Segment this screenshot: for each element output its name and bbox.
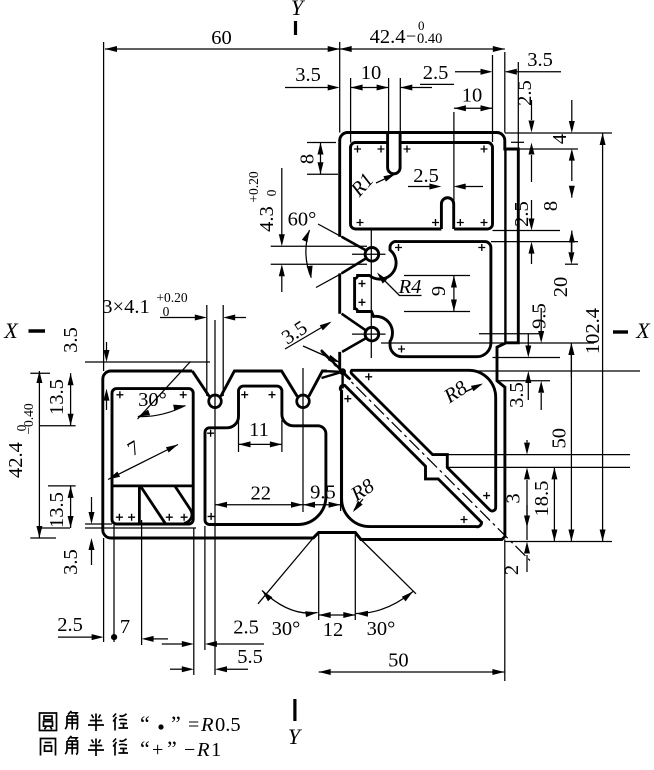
pocket 1 (bottom-left) rounded rect <box>112 389 193 524</box>
svg-text:60°: 60° <box>288 209 317 231</box>
label R4 <box>377 273 422 299</box>
label R8 upper <box>439 377 483 409</box>
svg-text:3: 3 <box>502 493 524 503</box>
svg-text:30°: 30° <box>272 618 301 640</box>
legend text (fillet radius notes) <box>40 711 241 761</box>
dim 13.5 lower <box>46 486 74 528</box>
svg-text:50: 50 <box>388 650 409 672</box>
bottom notch circle 2 (4.1 hole) <box>297 395 310 408</box>
vertical arm left edge segments (with keyhole V gaps) <box>338 140 341 369</box>
dim 13.5 upper <box>46 373 74 426</box>
pocket 1 diagonal slot right edge <box>175 486 192 523</box>
dim 60 deg notch angle <box>288 209 342 288</box>
dim 2.5 tab <box>408 165 483 190</box>
svg-text:20: 20 <box>550 277 572 298</box>
keyhole circle 2 (4.3 hole) <box>365 327 379 341</box>
dim 3.5 left top wall <box>60 327 110 410</box>
svg-text:0: 0 <box>418 18 425 33</box>
svg-text:4: 4 <box>549 134 571 144</box>
dim 2.5 right wall <box>420 62 493 84</box>
svg-text:“: “ <box>140 711 150 736</box>
bottom tab (2.5 wide, 8 tall) in top pocket <box>441 198 453 229</box>
label R1 <box>346 169 395 201</box>
dim 5.5 <box>170 646 263 672</box>
dim 50 right <box>549 343 575 542</box>
svg-text:3.5: 3.5 <box>295 64 321 86</box>
svg-text:X: X <box>635 318 651 343</box>
svg-text:3×4.1: 3×4.1 <box>102 296 149 318</box>
dim 50 bottom <box>319 650 505 676</box>
dim 20 <box>550 240 574 377</box>
svg-text:0.40: 0.40 <box>417 31 442 47</box>
svg-text:+0.20: +0.20 <box>246 171 261 202</box>
svg-text:3.5: 3.5 <box>60 549 82 575</box>
svg-text:11: 11 <box>249 419 269 441</box>
internal step edge (flange depth line) <box>504 149 506 343</box>
svg-text:R: R <box>196 739 210 761</box>
svg-text:2.5: 2.5 <box>233 617 259 639</box>
svg-text:+0.20: +0.20 <box>156 290 187 305</box>
svg-text:13.5: 13.5 <box>46 492 68 528</box>
dim 2.5 right bottom <box>511 200 535 264</box>
svg-text:“: “ <box>140 736 150 761</box>
junction blob (corner keyhole) <box>339 368 346 375</box>
svg-text:+: + <box>152 739 163 761</box>
svg-text:13.5: 13.5 <box>46 379 68 415</box>
svg-text:50: 50 <box>549 428 571 449</box>
dim 3.5 step <box>505 49 561 75</box>
svg-text:”: ” <box>167 736 177 761</box>
part outer profile right/top block and bottom arm <box>103 133 519 540</box>
svg-text:8: 8 <box>297 154 319 164</box>
dim 4 step height <box>549 100 575 181</box>
svg-text:30°: 30° <box>367 618 396 640</box>
dim 3.5 brace width <box>278 317 340 363</box>
dim 30 deg slot angle <box>138 362 191 420</box>
svg-text:0: 0 <box>14 424 29 431</box>
dim 60 / 42.4 top <box>105 18 505 52</box>
keyhole 1 V legs <box>342 237 366 274</box>
svg-text:18.5: 18.5 <box>531 481 553 517</box>
svg-text:0: 0 <box>163 304 170 319</box>
pocket 3 lower-left triangle outline <box>340 385 481 527</box>
dim 30 deg tab right <box>356 540 416 641</box>
svg-text:102.4: 102.4 <box>582 308 604 354</box>
pocket 1 vertical divider <box>138 486 141 524</box>
dim 7 bottom <box>114 616 168 642</box>
svg-text:3.5: 3.5 <box>506 382 528 408</box>
dim 12 <box>319 612 356 641</box>
dim 9.5 right <box>529 303 551 410</box>
keyhole 2 V legs <box>342 314 366 352</box>
dim 7 slot width <box>108 437 178 480</box>
svg-text:4.3: 4.3 <box>256 206 278 232</box>
dim 2.5 bottom left <box>57 614 117 640</box>
thin extension lines <box>30 42 640 681</box>
svg-text:2.5: 2.5 <box>57 614 83 636</box>
svg-text:2.5: 2.5 <box>413 165 439 187</box>
bottom notch circle 1 (4.1 hole) <box>209 395 222 408</box>
svg-text:3.5: 3.5 <box>60 327 82 353</box>
dim 10 inner <box>454 85 493 112</box>
top pocket left/bottom/right walls <box>351 143 493 230</box>
svg-text:0.5: 0.5 <box>215 714 241 736</box>
dim 3.5 right wall <box>506 334 531 408</box>
dim 18.5 <box>531 467 557 541</box>
svg-text:12: 12 <box>323 619 344 641</box>
dim 2.5 right top <box>514 80 536 182</box>
svg-text:42.4: 42.4 <box>5 442 27 478</box>
svg-text:2.5: 2.5 <box>514 80 536 106</box>
svg-text:0: 0 <box>264 189 279 196</box>
pocket 1 ledge line <box>112 484 193 487</box>
top slot (2.5 wide) through top wall <box>388 131 401 174</box>
dim 3 brace jog <box>502 440 530 560</box>
dim 3x4.1 <box>102 290 246 321</box>
svg-text:1: 1 <box>211 739 221 761</box>
dim 42.4 left <box>5 371 42 538</box>
dim 102.4 <box>582 133 606 542</box>
svg-text:9.5: 9.5 <box>310 482 336 504</box>
dim 3.5 left bottom wall <box>60 497 95 575</box>
junction connector edges <box>321 350 351 389</box>
dim 2.5 bottom middle <box>162 617 264 648</box>
brace centerline (dash-dot) <box>321 352 530 561</box>
dim 4.3 keyhole <box>246 168 285 292</box>
dim 8 tab height <box>540 186 575 252</box>
keyhole circle 1 (4.3 hole) <box>365 248 379 262</box>
dim 3.5 / 10 / 2.5 row <box>285 62 432 91</box>
svg-text:9.5: 9.5 <box>529 303 551 329</box>
svg-text:7: 7 <box>120 616 130 638</box>
svg-text:10: 10 <box>361 62 382 84</box>
dim 9.5 bottom <box>303 482 341 508</box>
svg-text:−: − <box>406 26 416 46</box>
R1 fillet plus marks <box>116 146 490 524</box>
pocket 3 upper-right triangle outline <box>351 370 496 511</box>
svg-text:3.5: 3.5 <box>527 49 553 71</box>
svg-text:8: 8 <box>540 201 562 211</box>
svg-text:=: = <box>188 714 199 736</box>
pocket 2 (bottom middle) outline <box>205 386 326 524</box>
svg-text:10: 10 <box>462 85 483 107</box>
arm top edge notches (chamfers + notch arcs) <box>192 371 327 397</box>
svg-text:22: 22 <box>251 483 272 505</box>
svg-text:60: 60 <box>211 27 232 49</box>
pocket 1 diagonal slot left edge <box>140 486 165 523</box>
svg-text:R: R <box>200 714 214 736</box>
svg-text:2: 2 <box>501 565 523 575</box>
dim 22 <box>215 483 303 508</box>
svg-text:−: − <box>184 739 195 761</box>
dim 30 deg tab left <box>258 538 318 640</box>
svg-text:X: X <box>3 318 19 343</box>
bottom tab edges <box>313 533 361 540</box>
svg-text:”: ” <box>171 711 181 736</box>
svg-text:42.4: 42.4 <box>370 26 406 48</box>
dim 8 slot depth <box>297 143 324 175</box>
svg-text:5.5: 5.5 <box>237 646 263 668</box>
label R8 lower <box>346 475 379 513</box>
svg-text:2.5: 2.5 <box>423 62 449 84</box>
svg-text:R4: R4 <box>398 276 422 298</box>
dim 9 <box>428 276 457 312</box>
dim 2 <box>501 505 530 575</box>
svg-text:9: 9 <box>428 286 450 296</box>
dim 11 <box>239 419 282 447</box>
middle pocket (R4 pocket) outline <box>355 241 491 356</box>
